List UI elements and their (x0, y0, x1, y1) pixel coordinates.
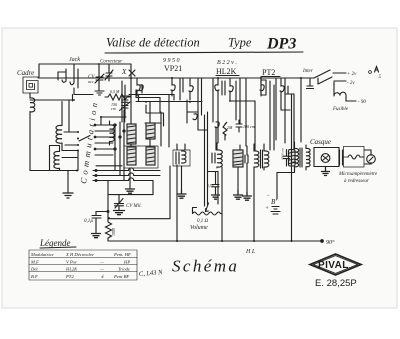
svg-text:+ 2v: + 2v (347, 72, 357, 77)
svg-text:0,1 Ω: 0,1 Ω (197, 219, 209, 224)
bottom-left horizontal wire (30, 170, 77, 172)
mesh wires V1 (129, 95, 174, 113)
variable capacitor CV acc (96, 64, 103, 91)
junction verticals near commutation (115, 110, 124, 180)
wire to ground (67, 171, 69, 194)
svg-text:X H Décovolve: X H Décovolve (65, 252, 94, 257)
coil L4 right of commutation (110, 125, 115, 142)
svg-text:Légende: Légende (39, 238, 71, 248)
V2 mesh (187, 100, 198, 112)
extra anode step HL2K (261, 80, 266, 95)
IF coil L5 (182, 151, 187, 163)
PIVAL logo diamond (310, 254, 361, 275)
svg-text:B 2 2 v .: B 2 2 v . (217, 60, 237, 66)
svg-text:CV Mil.: CV Mil. (126, 204, 142, 209)
svg-text:HL2K: HL2K (65, 267, 78, 272)
horizontal wire jack to left (30, 99, 74, 101)
node wire y117 (101, 117, 126, 125)
trimmer below (120, 102, 131, 111)
svg-text:B.F: B.F (31, 274, 38, 279)
branch down from y100 (68, 100, 70, 132)
wire cadre to top node (39, 64, 131, 77)
svg-text:X: X (121, 68, 127, 76)
svg-text:Type: Type (228, 36, 252, 50)
svg-text:Modulatrice: Modulatrice (30, 252, 54, 257)
screen wires V4 (288, 86, 294, 94)
decoupling cap near switch (307, 78, 314, 89)
bottom bus (108, 240, 322, 242)
resistor box R1 (127, 124, 136, 144)
jack symbol (58, 69, 66, 82)
svg-text:−: − (266, 193, 270, 199)
tube V1 envelope lines (130, 78, 132, 110)
ground under casque (322, 167, 330, 176)
svg-text:VP21: VP21 (164, 64, 182, 73)
wires around R1 R2 (131, 102, 161, 148)
ammeter 0,5A top right (369, 71, 372, 74)
resistor box R2 (146, 123, 155, 139)
svg-text:100 cm: 100 cm (243, 124, 255, 129)
svg-text:PIVAL: PIVAL (318, 260, 349, 271)
long vertical wires to bottom bus (176, 165, 178, 241)
svg-text:Dét: Dét (30, 267, 38, 272)
resistor box B3 (233, 150, 243, 167)
resistor box B4 (289, 150, 296, 167)
V4 mesh (286, 94, 294, 150)
output transformer to casque (295, 148, 299, 166)
resistor 1000 vertical zigzag (106, 219, 112, 241)
vertical long wires top region (202, 78, 302, 150)
commutation switch bank 1 (95, 125, 115, 155)
variable cap CV Mil (115, 195, 124, 211)
grid resistor small zigzag (223, 122, 227, 140)
title underline (105, 52, 303, 53)
microammeter circle (367, 155, 376, 164)
svg-text:Valise de détection: Valise de détection (106, 36, 200, 50)
tube V2 anode hook (189, 78, 193, 100)
rectifier box (343, 147, 365, 168)
svg-text:cm: cm (111, 106, 116, 111)
enclosure around coil L3 (50, 146, 60, 171)
svg-text:Volume: Volume (190, 225, 208, 231)
resistor in rectifier box (348, 155, 364, 159)
wire contact column down (77, 151, 79, 171)
legend table frame (29, 250, 137, 280)
svg-text:- 2v: - 2v (347, 81, 355, 86)
cap C9 (340, 150, 343, 165)
wire to microammeter (364, 150, 371, 164)
svg-text:Microampèremètre: Microampèremètre (338, 172, 378, 177)
ground mid 3 (177, 190, 186, 198)
tube V2 structure (171, 78, 175, 96)
svg-text:⏚: ⏚ (100, 274, 105, 279)
pot arrow head (206, 203, 209, 212)
coil L2 (61, 102, 63, 126)
casque circuit rect (314, 148, 339, 167)
legend table text (30, 252, 131, 279)
volume potentiometer (193, 212, 223, 215)
svg-text:E. 28,25P: E. 28,25P (315, 278, 357, 289)
wire jack down (73, 88, 94, 101)
title: Valise de détection Type DP3 (106, 36, 296, 53)
svg-text:PT2: PT2 (262, 68, 275, 77)
ground mid 1 (234, 190, 243, 199)
frame antenna (cadre) square spiral (23, 77, 39, 93)
svg-text:HP: HP (123, 260, 130, 265)
ground symbol left (63, 193, 73, 198)
svg-text:Schéma: Schéma (172, 257, 239, 276)
svg-text:1000: 1000 (111, 228, 116, 236)
extra vertical pair V3 (236, 81, 240, 124)
coupling cap to casque (277, 167, 295, 173)
fuse (334, 82, 356, 101)
svg-text:2M: 2M (227, 125, 233, 130)
lower resistor box B2 (146, 147, 155, 165)
transformer T1 (254, 151, 259, 167)
ground under that cap (212, 195, 220, 199)
svg-text:0,1µ: 0,1µ (84, 219, 93, 224)
phone jack circle (321, 154, 330, 163)
ground under CV acc (95, 91, 104, 95)
wire segment y130 (217, 125, 218, 143)
commutation left contact stubs (62, 132, 78, 158)
lower resistor box B1 (127, 147, 136, 165)
V3 grid leak mesh (230, 101, 255, 150)
decoupling cap near volume (208, 172, 219, 205)
trimmer capacitor (105, 64, 113, 81)
svg-text:Fusible: Fusible (332, 107, 349, 112)
grid cap with label (236, 120, 242, 132)
V1 anode hook (139, 85, 143, 91)
ground under CV Mil (114, 211, 125, 215)
svg-text:+: + (265, 206, 269, 212)
IF transformer cap C5 (176, 152, 179, 164)
box around CV mil (108, 166, 170, 219)
svg-text:DP3: DP3 (266, 36, 296, 53)
cap C6 before L6 (212, 153, 215, 163)
svg-text:PT2: PT2 (65, 274, 74, 279)
svg-text:acc: acc (88, 79, 94, 84)
switch pole 2 (318, 77, 346, 84)
coil L6 (217, 150, 222, 167)
tube V3 structure (215, 78, 219, 125)
tube V4 structure (260, 78, 264, 96)
svg-text:H L: H L (245, 249, 256, 255)
grid resistor 0,5M zigzag (108, 94, 127, 100)
svg-text:Cadre: Cadre (17, 69, 34, 77)
svg-text:HL2K: HL2K (216, 67, 237, 76)
svg-text:Inter: Inter (302, 69, 313, 74)
svg-text:- 90: - 90 (358, 100, 366, 105)
svg-text:Triode: Triode (118, 267, 130, 272)
left column coil under cadre (30, 98, 35, 112)
svg-text:Jack: Jack (69, 57, 80, 63)
svg-text:à redresseur: à redresseur (344, 179, 369, 184)
stubs from vertical to transformer (293, 152, 297, 162)
enclosure lines around boxes (124, 146, 158, 168)
svg-text:Pent. HF: Pent. HF (113, 252, 131, 257)
svg-text:90°: 90° (326, 239, 335, 246)
svg-text:M.F: M.F (30, 260, 39, 265)
enclosure rect around C5 L5 (173, 150, 190, 166)
svg-text:Casque: Casque (310, 138, 331, 146)
coil L3 (54, 151, 60, 168)
main top bus (74, 64, 131, 78)
svg-text:Pent BF: Pent BF (113, 274, 129, 279)
commutation wiper diagonal (79, 136, 90, 142)
commutation bank 2 (93, 166, 160, 181)
switch inter pole 1 (314, 70, 346, 78)
svg-text:B': B' (271, 198, 277, 206)
caps C7 C8 (240, 145, 248, 163)
ground mid 2 (243, 192, 252, 200)
svg-text:V Por: V Por (66, 260, 77, 265)
